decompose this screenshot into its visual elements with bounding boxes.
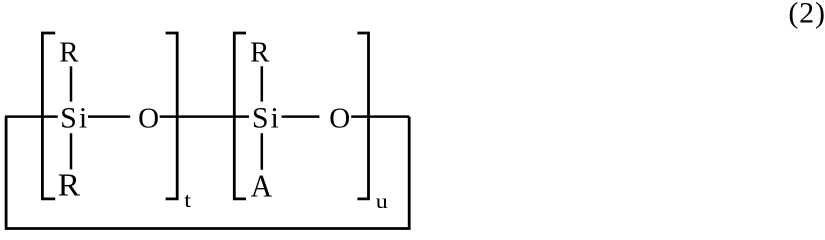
svg-text:Si: Si (252, 101, 281, 134)
wire Si2-O2 bond (282, 115, 320, 118)
svg-text:A: A (251, 168, 272, 204)
bond Si-A unit u (261, 133, 264, 170)
wire O1-Si2 bond (160, 115, 249, 118)
wire backbone segment left (5, 115, 58, 118)
svg-text:R: R (59, 37, 79, 69)
wire Si1-O1 bond (88, 115, 130, 118)
bond R-Si unit t (70, 66, 73, 101)
bond R-Si unit u (261, 66, 264, 101)
svg-text:O: O (138, 102, 159, 134)
wire backbone segment right (351, 115, 409, 118)
bond Si-R lower unit t (70, 133, 73, 169)
bracket right of unit u (357, 33, 368, 199)
svg-text:Si: Si (60, 101, 89, 134)
connector box (backbone loop) (6, 117, 409, 229)
svg-text:u: u (376, 191, 388, 213)
bracket left of unit t (42, 33, 55, 199)
svg-text:(2): (2) (788, 0, 825, 29)
svg-text:t: t (184, 188, 191, 212)
bracket left of unit u (234, 33, 246, 199)
bracket right of unit t (166, 33, 178, 199)
svg-text:R: R (250, 37, 270, 69)
svg-text:R: R (58, 167, 81, 203)
svg-text:O: O (329, 102, 350, 134)
